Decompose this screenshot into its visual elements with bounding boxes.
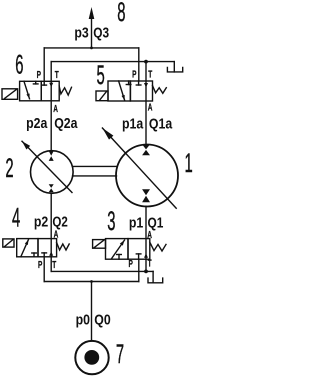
svg-text:1: 1 (185, 147, 193, 178)
svg-text:P: P (38, 258, 42, 270)
svg-text:p3: p3 (74, 24, 88, 40)
svg-text:Q0: Q0 (94, 312, 110, 328)
svg-text:T: T (148, 68, 152, 80)
svg-text:3: 3 (107, 205, 115, 236)
svg-text:p2a: p2a (26, 115, 48, 131)
svg-text:A: A (53, 102, 58, 114)
svg-text:Q2a: Q2a (54, 115, 78, 131)
svg-text:Q1a: Q1a (149, 116, 173, 132)
svg-text:P: P (129, 257, 133, 269)
svg-text:p2: p2 (34, 214, 48, 230)
svg-text:T: T (148, 257, 152, 269)
svg-text:7: 7 (116, 338, 124, 369)
svg-text:A: A (54, 228, 59, 240)
svg-text:p1: p1 (129, 214, 144, 230)
svg-text:5: 5 (97, 59, 105, 90)
svg-text:2: 2 (5, 152, 13, 183)
svg-text:T: T (52, 258, 56, 270)
svg-text:A: A (147, 228, 152, 240)
svg-text:P: P (132, 68, 136, 80)
svg-text:P: P (37, 68, 41, 80)
svg-text:p0: p0 (76, 312, 90, 328)
svg-text:6: 6 (15, 49, 23, 80)
svg-text:T: T (55, 68, 59, 80)
svg-text:Q3: Q3 (93, 24, 109, 40)
svg-text:A: A (148, 101, 153, 113)
svg-text:p1a: p1a (122, 116, 144, 132)
svg-text:4: 4 (12, 202, 20, 233)
svg-text:8: 8 (117, 0, 125, 27)
